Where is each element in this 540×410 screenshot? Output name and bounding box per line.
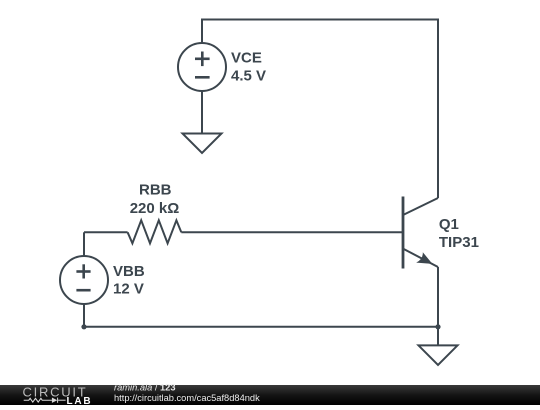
svg-text:ramin.ala / 123: ramin.ala / 123: [114, 383, 176, 393]
svg-text:VCE: VCE: [231, 50, 262, 67]
svg-text:12 V: 12 V: [113, 280, 144, 297]
svg-text:LAB: LAB: [67, 396, 93, 405]
svg-text:220 kΩ: 220 kΩ: [130, 200, 180, 217]
svg-text:RBB: RBB: [139, 182, 172, 199]
svg-text:4.5 V: 4.5 V: [231, 67, 266, 84]
svg-text:Q1: Q1: [439, 216, 459, 233]
svg-text:TIP31: TIP31: [439, 234, 479, 251]
svg-text:VBB: VBB: [113, 263, 145, 280]
svg-text:http://circuitlab.com/cac5af8d: http://circuitlab.com/cac5af8d84ndk: [114, 393, 260, 403]
